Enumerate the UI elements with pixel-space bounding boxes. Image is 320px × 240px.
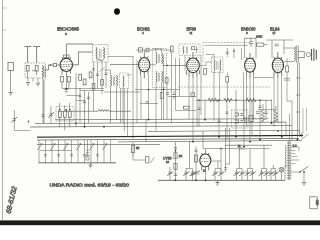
tube V4 EABC80 (245, 53, 256, 78)
paper edge tick marks (3, 8, 7, 30)
zigzag resistor RZ2 (224, 98, 232, 101)
svg-text:UNDA RADIO mod. 63/19 - 63/20: UNDA RADIO mod. 63/19 - 63/20 (50, 183, 130, 188)
small box K1 (191, 93, 195, 97)
EABC80 top network (245, 38, 257, 58)
AM IF transformer T3 dashed box (212, 57, 224, 73)
ratio det coil 2 (235, 120, 239, 123)
zigzag resistor RZ5 vertical (274, 106, 277, 122)
UY85 feed chain (174, 142, 177, 180)
svg-text:100K: 100K (256, 35, 262, 39)
ratio det coil 1 (235, 113, 239, 116)
wire V1 right to osc (72, 52, 93, 65)
bus line B7 (37, 143, 160, 145)
trimmer at x51 (48, 106, 54, 123)
resistor R5 (83, 79, 86, 85)
ground tuning bus (216, 180, 220, 185)
osc to ECH coupling line (108, 56, 133, 58)
T1 coil secondary (123, 76, 124, 87)
wire antenna box to V1 (46, 65, 51, 70)
UY85 wires (205, 149, 221, 181)
IF transformer T2 dashed box (152, 49, 167, 88)
small box left of RZ (249, 116, 253, 122)
switch contacts (38, 145, 107, 151)
supply rail y100 (196, 99, 272, 101)
link y110 (176, 110, 196, 112)
resistor R7 (170, 46, 173, 52)
lower mid components (86, 140, 89, 158)
EF89 grid line (163, 64, 187, 66)
osc core (100, 49, 102, 58)
svg-text:5K: 5K (136, 146, 140, 150)
osc box drop wires (94, 62, 107, 111)
dashed chassis line (178, 86, 270, 88)
bus line B1 (55, 119, 268, 120)
resistor bank dashed box (56, 107, 74, 122)
T1 wires (105, 70, 132, 123)
svg-text:2K: 2K (179, 154, 183, 158)
osc coil L2 (104, 48, 105, 59)
tube V1 ECC85 (60, 55, 72, 76)
svg-text:ECH81: ECH81 (137, 26, 151, 31)
left mains jack (8, 63, 14, 71)
svg-text:ECC85: ECC85 (57, 27, 80, 32)
ratio det output verticals (224, 128, 230, 172)
tube V5 EL84 (272, 52, 283, 78)
svg-text:11: 11 (203, 169, 206, 173)
bottom bus tuning (158, 179, 285, 181)
heater line with choke (58, 110, 98, 112)
ground mains (9, 93, 13, 96)
EABC80 lower wires (244, 72, 254, 142)
svg-text:469: 469 (315, 200, 319, 206)
FM IF transformer T1 (111, 75, 112, 86)
RZ top link (258, 110, 286, 136)
link EL84 grid (254, 77, 274, 79)
bus line B4 heavy (37, 135, 303, 137)
wire grid cap series (53, 64, 56, 67)
T3 wires (199, 55, 220, 122)
waveband switch bank (38, 140, 117, 168)
trimmer pair Cb (183, 142, 196, 181)
trimmer C-row (167, 142, 279, 181)
bus line B5 (37, 139, 299, 141)
ground mains switch (302, 183, 306, 186)
tube V2 ECH81 (139, 53, 150, 78)
svg-text:EABC80: EABC80 (241, 26, 256, 31)
switch caps (44, 155, 99, 157)
mid horizontals y89-92 (104, 90, 180, 93)
resistor R13 (92, 84, 95, 90)
mains switch (291, 167, 308, 183)
tube V3 EF89 (187, 52, 200, 78)
bus line B6 (118, 140, 302, 142)
resistor R14 (184, 106, 190, 109)
wires resistor bank (60, 103, 70, 130)
FM oscillator dashed box (93, 45, 109, 63)
ratio detector dashed box (232, 110, 249, 128)
punch hole (114, 8, 120, 15)
input filter components (26, 66, 29, 72)
link y103 (140, 103, 158, 105)
T2 FM unit coils (155, 53, 158, 64)
svg-text:6,3: 6,3 (293, 144, 298, 148)
resistor R15 (226, 77, 229, 83)
resistor R4 (79, 75, 82, 81)
resistor R2 (64, 111, 67, 117)
long vertical from antenna (42, 78, 44, 123)
bus line B3 (30, 126, 292, 127)
EF89 top box (179, 44, 200, 56)
trimmer pair Cg (268, 165, 279, 180)
resistor R12 (101, 80, 104, 86)
antenna dipole left (24, 47, 40, 64)
EL84 cathode components (286, 66, 289, 72)
right column wires (299, 108, 307, 133)
V1 top cap (63, 55, 69, 57)
resistor chain R11 (194, 147, 197, 181)
switch bottom rail (39, 162, 117, 164)
speaker return lines (298, 63, 300, 140)
trimmer pair Cc (212, 161, 225, 180)
zigzag resistor RZ1 (208, 98, 218, 102)
wire V1 anode top (66, 44, 92, 55)
zigzag resistor RZ3 (246, 98, 256, 102)
caps on drops (198, 106, 268, 122)
vertical wires EF89 (185, 55, 201, 142)
vertical drops mid band (199, 90, 272, 147)
ground input 2 (36, 83, 40, 86)
ECH81 grid line (110, 64, 156, 66)
ECH81 top components (136, 50, 153, 53)
resistor R9 (204, 69, 207, 75)
pilot lamp (279, 167, 284, 172)
resistor R8 (165, 78, 168, 84)
switch mid rail (40, 150, 72, 152)
tube V6 UY85 rectifier (200, 150, 211, 172)
trimmer Ca (167, 167, 174, 180)
EL84 top network (266, 40, 293, 58)
T2 AM unit coils (155, 71, 158, 82)
box cluster left of EF89 (160, 93, 163, 99)
osc trimmer (96, 59, 104, 62)
small parts under enclosure (226, 48, 242, 60)
vertical wires ECH81 (133, 52, 180, 137)
big dashed enclosure top (203, 43, 250, 62)
bottom paper border (0, 220, 320, 225)
cap near RZ (256, 112, 259, 114)
input coupling coil (42, 66, 43, 78)
cap symbols on verticals (79, 95, 91, 103)
power transformer core (285, 141, 299, 180)
bus line B8 short (203, 131, 272, 148)
vertical wires V1 zone to bus (44, 73, 89, 127)
svg-text:UY85: UY85 (163, 156, 172, 161)
horizontal link y88 (66, 88, 104, 90)
inter-bus vertical (145, 120, 147, 142)
resistor R6 (89, 72, 92, 78)
antenna input box (25, 63, 46, 78)
small mark (28, 120, 30, 123)
caps on osc drops (92, 69, 108, 76)
svg-text:EL84: EL84 (270, 26, 280, 31)
trimmer mid (100, 68, 105, 72)
ground input 1 (26, 83, 30, 86)
paper left edge (2, 0, 4, 220)
svg-text:EF89: EF89 (187, 26, 197, 31)
zigzag resistor RZ4 vertical (261, 104, 264, 122)
resistor R1 (59, 111, 62, 117)
trimmer pair Ce (245, 149, 257, 181)
trimmer cap left (12, 117, 18, 123)
T3 coils (213, 60, 216, 71)
T1 box pins (121, 89, 128, 137)
link wires left mid (66, 91, 104, 101)
T2 drop wires (156, 49, 167, 132)
ratio det cap (245, 117, 247, 123)
ground switch (89, 163, 93, 168)
link y96 (168, 96, 196, 98)
output transformer (294, 47, 297, 61)
cap on antenna drop (42, 115, 45, 117)
ground V1 cathode (64, 88, 68, 92)
enclosure inner line (205, 44, 248, 46)
wire left col (14, 110, 30, 131)
transformer primary lead (285, 166, 287, 180)
speaker (298, 52, 304, 58)
switch diagonal to bus (301, 134, 309, 140)
EL84 lower wires (274, 76, 282, 137)
resistor R3 (69, 111, 72, 117)
trimmer pair Cf (259, 145, 271, 180)
bus line B2 (35, 122, 286, 123)
trimmer pair Cd (234, 145, 246, 180)
bus line B9 (148, 130, 300, 131)
T1 dashed box (120, 73, 129, 89)
osc coil L1 (96, 48, 97, 59)
V1 cathode resistors (61, 76, 64, 82)
input box pins (28, 78, 38, 82)
transformer secondary leads (291, 147, 299, 164)
stamp box bottom right (310, 197, 317, 209)
resistor R10 (132, 142, 134, 157)
